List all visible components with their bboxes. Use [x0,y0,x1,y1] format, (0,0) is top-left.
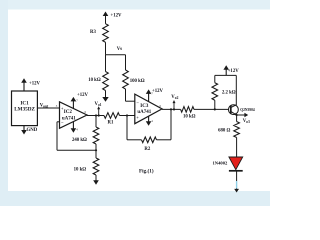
svg-text:1N4002: 1N4002 [213,161,229,166]
svg-text:LM35DZ: LM35DZ [14,107,35,113]
svg-text:uA741: uA741 [137,110,151,115]
svg-text:Vo1: Vo1 [95,102,102,107]
svg-text:10 kΩ: 10 kΩ [74,168,87,173]
svg-text:Vout: Vout [40,104,49,109]
svg-text:R1: R1 [108,120,114,125]
svg-text:IC2: IC2 [64,110,73,115]
svg-text:IC3: IC3 [140,104,149,109]
svg-text:Vs: Vs [117,47,122,52]
svg-text:+12V: +12V [228,69,240,74]
svg-text:+12V: +12V [77,93,89,98]
svg-text:100 kΩ: 100 kΩ [130,79,145,84]
svg-text:Fig.(1): Fig.(1) [139,168,154,175]
svg-text:+12V: +12V [111,14,123,19]
svg-text:+: + [61,106,64,111]
svg-text:+: + [136,115,139,120]
svg-text:R2: R2 [144,147,150,152]
svg-text:R3: R3 [90,30,96,35]
svg-text:240 kΩ: 240 kΩ [72,138,87,143]
svg-text:Vo3: Vo3 [243,119,250,124]
svg-text:Vo2: Vo2 [171,95,178,100]
svg-text:680 Ω: 680 Ω [218,129,230,134]
svg-text:2.2 kΩ: 2.2 kΩ [222,90,236,95]
svg-text:Q2N3904: Q2N3904 [240,108,255,112]
svg-text:uA741: uA741 [62,117,76,122]
svg-text:+12V: +12V [29,81,41,86]
svg-text:+12V: +12V [152,89,164,94]
svg-text:−: − [136,101,139,106]
svg-text:GND: GND [27,128,38,133]
svg-text:10 kΩ: 10 kΩ [88,78,101,83]
svg-text:IC1: IC1 [20,100,29,106]
svg-text:10 kΩ: 10 kΩ [183,114,196,119]
svg-text:−: − [61,120,64,125]
